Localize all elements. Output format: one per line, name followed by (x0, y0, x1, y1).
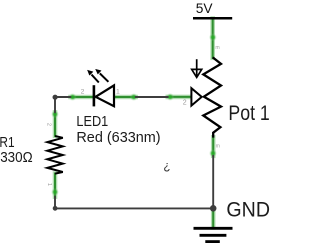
svg-text:m: m (215, 45, 219, 51)
svg-text:Red (633nm): Red (633nm) (76, 129, 160, 146)
svg-text:¿: ¿ (163, 160, 170, 173)
svg-text:m: m (216, 144, 220, 150)
svg-text:5V: 5V (196, 0, 213, 16)
svg-text:2: 2 (46, 123, 52, 126)
svg-text:GND: GND (226, 198, 270, 221)
svg-text:330Ω: 330Ω (0, 149, 32, 166)
svg-text:1: 1 (116, 89, 120, 96)
svg-text:Pot 1: Pot 1 (228, 102, 269, 125)
svg-text:LED1: LED1 (76, 113, 108, 130)
svg-text:2: 2 (81, 89, 85, 96)
svg-text:2: 2 (183, 100, 187, 107)
svg-text:1: 1 (46, 183, 52, 186)
